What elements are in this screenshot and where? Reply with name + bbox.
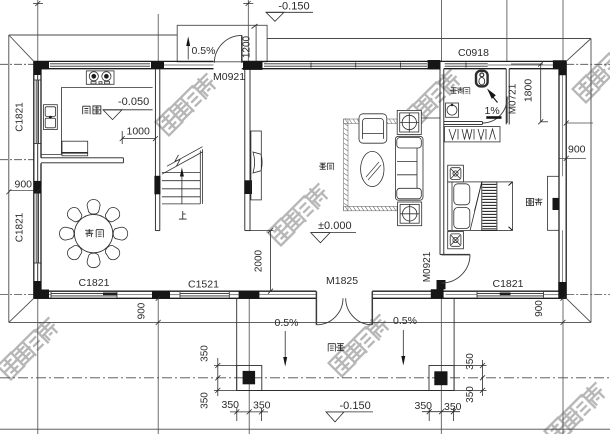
bedroom bay window right wall xyxy=(548,176,560,230)
window C1821 left kitchen xyxy=(35,80,37,144)
stair break line lower xyxy=(162,152,203,174)
KITCHEN xyxy=(41,71,153,156)
bottom wall inner line xyxy=(41,290,316,292)
svg-text:350: 350 xyxy=(444,401,462,413)
column top kitchen/stair xyxy=(151,61,164,69)
svg-text:M0721: M0721 xyxy=(508,83,519,114)
axis B vertical x=158.2 top xyxy=(157,14,159,61)
right wall outer line xyxy=(565,61,567,298)
toilet xyxy=(476,71,488,87)
right wall inner line xyxy=(558,69,560,292)
svg-text:350: 350 xyxy=(222,399,240,411)
PORCH xyxy=(237,298,454,390)
kitchen fridge xyxy=(62,141,88,156)
axis B vertical x=158.2 bottom xyxy=(157,298,159,434)
svg-text:350: 350 xyxy=(253,400,271,412)
svg-text:1800: 1800 xyxy=(523,79,535,103)
bottom wall axis dashdot right xyxy=(566,293,610,295)
label bedroom (wo shi) xyxy=(526,198,542,206)
top wall inner line xyxy=(41,68,214,70)
eave left edge xyxy=(8,35,10,322)
axis A vertical x=37.8 xyxy=(37,0,39,434)
dining table xyxy=(74,214,112,252)
axis C vertical x=249.2 bottom xyxy=(248,298,250,434)
sofa three seat xyxy=(395,136,423,200)
column top living/bath xyxy=(428,60,441,69)
porch right edge xyxy=(453,298,455,390)
column bedroom door L xyxy=(431,280,446,298)
bottom wall axis dashdot left xyxy=(0,293,34,295)
bed xyxy=(448,182,513,231)
dim 900 right side xyxy=(564,121,569,161)
watermark 6 (porch) xyxy=(328,312,393,377)
door M0921 top (to terrace) leaf xyxy=(241,35,243,62)
door M0921 bedroom leaf xyxy=(442,254,470,256)
balcony box above entry (terrace) xyxy=(177,25,267,62)
window C1821 left dining xyxy=(35,193,37,264)
svg-text:350: 350 xyxy=(200,392,211,409)
column stair wall mid xyxy=(154,176,160,195)
dining chairs xyxy=(60,200,128,268)
EAVE OUTLINE xyxy=(9,35,591,322)
armchair xyxy=(359,114,387,143)
window C1521 bottom xyxy=(180,292,229,294)
porch column core left xyxy=(243,371,256,384)
stair break zigzag xyxy=(175,155,180,166)
end table bottom xyxy=(398,202,422,226)
dim 350/350 right column horizontal xyxy=(422,408,460,421)
watermark 2 (near bathroom) xyxy=(399,67,464,132)
porch bottom edge xyxy=(237,390,454,392)
pillows xyxy=(454,184,470,205)
INTERIOR WALLS xyxy=(41,61,509,254)
svg-text:C1821: C1821 xyxy=(79,277,110,289)
dim 1200 terrace xyxy=(242,24,258,58)
rug hatched border xyxy=(344,119,397,211)
eave top edge right segment xyxy=(267,38,591,40)
top tick at axis A xyxy=(33,1,43,6)
kitchen bottom wall xyxy=(41,157,123,159)
stair break line upper xyxy=(167,147,203,167)
svg-text:C1521: C1521 xyxy=(188,279,219,291)
wash basin xyxy=(446,103,459,117)
column BR corner xyxy=(558,282,566,298)
svg-text:C1821: C1821 xyxy=(15,212,26,242)
level mark -0.050 kitchen xyxy=(103,96,153,120)
axis C vertical x=249.2 top xyxy=(247,0,249,61)
balcony inner right line xyxy=(255,25,257,62)
svg-text:M0921: M0921 xyxy=(422,251,433,282)
top tick at axis C xyxy=(243,1,253,6)
left wall outer line xyxy=(33,61,35,298)
slope 1% arrow xyxy=(487,89,496,99)
svg-text:900: 900 xyxy=(137,302,148,319)
porch axis dashdot full width y=377.8 xyxy=(0,377,610,379)
DOORS xyxy=(214,35,507,324)
watermark 5 (bottom left edge) xyxy=(0,315,62,380)
STAIRS xyxy=(162,147,203,204)
svg-text:900: 900 xyxy=(15,179,33,191)
door M0921 bedroom arc xyxy=(442,255,470,283)
window top-wall kitchen xyxy=(50,63,150,65)
axis F vertical x=563 bottom xyxy=(562,298,564,434)
axis D vertical x=441.3 bottom xyxy=(440,298,442,434)
svg-text:C1821: C1821 xyxy=(493,278,524,290)
column BL corner xyxy=(34,281,49,298)
svg-text:-0.050: -0.050 xyxy=(118,96,149,108)
extension line y=190.5 left xyxy=(9,190,41,192)
window C1821 bottom dining xyxy=(51,292,117,294)
top wall axis dashdot right xyxy=(566,63,610,65)
top wall axis dashdot left xyxy=(0,63,34,65)
svg-text:±0.000: ±0.000 xyxy=(318,220,352,232)
porch left edge xyxy=(236,298,238,390)
svg-text:900: 900 xyxy=(568,144,586,156)
label up (shang) xyxy=(179,211,187,219)
window C0918 bathroom xyxy=(445,63,488,65)
svg-text:350: 350 xyxy=(465,353,476,370)
coffee table xyxy=(361,151,384,186)
door M1825 entry right arc xyxy=(346,298,373,325)
label kitchen (chu fang) xyxy=(83,106,101,114)
column bottom wall mid-left xyxy=(152,291,170,299)
svg-text:-0.150: -0.150 xyxy=(340,400,371,412)
top wall outer line xyxy=(34,60,214,62)
svg-text:C0918: C0918 xyxy=(458,47,489,59)
label entry hall (men ting) xyxy=(328,344,345,352)
eave corner diagonal BR xyxy=(566,298,591,322)
svg-text:1000: 1000 xyxy=(127,126,151,138)
window top-wall living band xyxy=(264,63,427,65)
column TL corner xyxy=(34,61,49,75)
svg-text:1200: 1200 xyxy=(242,35,253,58)
svg-text:-0.150: -0.150 xyxy=(278,1,309,13)
blanket hatched band xyxy=(482,182,497,231)
level mark plus-minus 0.000 living xyxy=(311,220,356,243)
watermark 1 (near stairs top) xyxy=(155,71,220,136)
svg-text:350: 350 xyxy=(465,386,476,403)
dim 1000 kitchen xyxy=(120,131,158,144)
extension line y=123 right xyxy=(566,122,593,124)
line end table to wall xyxy=(421,117,440,119)
slope arrow 0.5% porch right xyxy=(393,315,417,366)
porch column square right xyxy=(429,366,454,391)
label living (ke ting) xyxy=(319,163,334,170)
dim 2000 hall opening xyxy=(250,228,274,294)
nightstand top xyxy=(448,165,464,182)
porch column core right xyxy=(434,371,447,385)
eave bottom edge xyxy=(9,321,591,323)
porch column square left xyxy=(237,366,262,391)
door M0921 top arc xyxy=(214,35,241,62)
wall stair/living x=245-250 xyxy=(244,61,246,230)
column living wall mid xyxy=(244,180,252,194)
dim line 1800 bathroom xyxy=(511,62,548,125)
kitchen stove xyxy=(86,71,114,84)
eave right edge xyxy=(590,39,592,323)
COLUMNS (black) xyxy=(34,60,567,298)
dim 350/350 left column vertical xyxy=(214,358,237,396)
window glazing lines xyxy=(35,62,544,297)
dark sash bar dining window xyxy=(103,293,117,296)
end table top xyxy=(397,110,421,134)
slope arrow 0.5% terrace xyxy=(186,36,215,59)
bathroom bottom wall xyxy=(444,121,483,123)
eave corner diagonal BL xyxy=(9,298,34,322)
kitchen sink xyxy=(44,105,58,130)
svg-text:C1821: C1821 xyxy=(15,102,26,132)
bathroom right wall x=506-509 xyxy=(505,69,507,125)
bed corner ticks xyxy=(509,182,513,231)
eave top edge left segment xyxy=(9,34,177,36)
svg-text:0.5%: 0.5% xyxy=(393,315,417,327)
door M1825 entry left arc xyxy=(316,298,343,325)
door M0721 bathroom arc xyxy=(482,99,507,124)
bathroom door threshold bar xyxy=(486,116,501,119)
svg-text:2000: 2000 xyxy=(254,249,265,272)
watermark 4 (living room left) xyxy=(267,181,332,246)
wall axis mid lines xyxy=(37,65,562,295)
stair up arrow xyxy=(181,176,183,204)
wardrobe xyxy=(445,127,501,142)
dark sash bar bedroom window xyxy=(500,293,511,296)
svg-text:350: 350 xyxy=(415,400,433,412)
axis E vertical x=507 top xyxy=(506,0,508,61)
kitchen wall axis dashdot left xyxy=(0,159,34,161)
wall kitchen/stair x=155-160 xyxy=(154,61,156,230)
svg-text:0.5%: 0.5% xyxy=(275,317,299,329)
blanket fold diagonal xyxy=(470,182,482,231)
column left wall mid xyxy=(34,181,41,194)
bottom long line y=429.2 xyxy=(0,428,610,430)
stair treads xyxy=(162,172,200,174)
svg-text:350: 350 xyxy=(200,345,211,362)
BATHROOM xyxy=(446,71,488,118)
door M0721 bathroom leaf xyxy=(506,97,508,124)
slope arrow 0.5% porch left xyxy=(275,317,299,367)
dim 350/350 left column horizontal xyxy=(230,408,268,421)
wall living/bedroom x=440-444 xyxy=(439,61,441,254)
eave corner diagonal TL xyxy=(9,35,34,61)
TV stand xyxy=(251,131,262,200)
svg-text:0.5%: 0.5% xyxy=(192,45,216,57)
label bathroom (wei sheng jian) xyxy=(450,87,470,94)
dim 900 left side xyxy=(6,188,41,194)
svg-text:900: 900 xyxy=(534,300,545,317)
level mark -0.150 top xyxy=(266,1,313,22)
axis D vertical x=441.3 top xyxy=(441,0,443,61)
svg-text:1%: 1% xyxy=(485,105,500,117)
axis F vertical x=563 top xyxy=(562,0,564,61)
column TR corner xyxy=(553,60,566,75)
level mark -0.150 bottom xyxy=(326,400,373,422)
stair right stringer double line xyxy=(199,151,201,204)
eave corner diagonal TR xyxy=(566,39,591,62)
bottom wall outer line xyxy=(34,297,316,299)
dim 350/350 right column vertical xyxy=(454,360,486,396)
door M1825 entry right leaf xyxy=(371,291,373,325)
left wall inner line xyxy=(40,69,42,158)
watermark 3 (top right edge) xyxy=(572,38,610,103)
column bottom wall porch-left xyxy=(239,291,260,299)
kitchen counter edge xyxy=(41,88,153,155)
svg-text:M0921: M0921 xyxy=(213,71,245,83)
window C1821 bottom bedroom xyxy=(477,292,544,294)
column top stair/living xyxy=(243,61,263,70)
door M1825 entry left leaf xyxy=(315,291,317,325)
watermark 7 (bottom right corner) xyxy=(544,380,609,434)
nightstand bottom xyxy=(448,231,464,248)
svg-text:M1825: M1825 xyxy=(326,275,358,287)
extension line y=158.4 right xyxy=(559,157,586,159)
label dining (can ting) xyxy=(85,229,103,238)
